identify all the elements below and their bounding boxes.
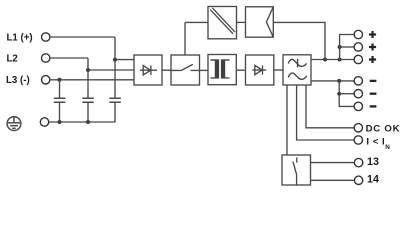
svg-text:DC OK: DC OK bbox=[366, 123, 401, 134]
terminal L1 bbox=[42, 33, 50, 41]
wire contact 13 bbox=[311, 162, 355, 164]
top sine with bar symbol bbox=[288, 59, 306, 66]
svg-text:14: 14 bbox=[367, 174, 379, 186]
label L1 (+) bbox=[7, 32, 33, 43]
svg-text:I < I: I < I bbox=[366, 137, 385, 148]
bottom sine symbol bbox=[288, 73, 307, 79]
terminal minus 1 bbox=[354, 77, 362, 85]
label DC OK bbox=[366, 123, 401, 134]
node L2 junction bbox=[86, 68, 90, 72]
capacitor C1 bbox=[54, 98, 66, 102]
diode box D2 bbox=[246, 55, 274, 85]
node minus bus top bbox=[337, 79, 341, 83]
terminal PE bbox=[40, 118, 48, 126]
plus sign 1 bbox=[369, 31, 376, 38]
label 14 bbox=[367, 174, 379, 186]
terminal plus 3 bbox=[354, 55, 362, 63]
wire relay coil bbox=[286, 85, 288, 155]
ground protective earth symbol bbox=[7, 117, 21, 131]
wire minus stub middle bbox=[339, 93, 354, 95]
minus sign 2 bbox=[370, 93, 377, 95]
wire L1 vertical bbox=[114, 37, 116, 98]
wire plus output bbox=[311, 59, 354, 61]
wire converter to buffer bbox=[237, 21, 246, 23]
label L2 bbox=[7, 53, 18, 64]
node minus bus middle bbox=[337, 92, 341, 96]
terminal DC OK bbox=[354, 124, 362, 132]
terminal L3 bbox=[42, 76, 50, 84]
terminal minus 2 bbox=[354, 90, 362, 98]
output stage box A3 bbox=[283, 55, 311, 85]
svg-text:L1 (+): L1 (+) bbox=[7, 32, 33, 43]
transformer winding symbol bbox=[210, 60, 229, 78]
double diagonal symbol bbox=[210, 8, 235, 34]
switch symbol bbox=[171, 64, 200, 70]
wire contact 14 bbox=[311, 179, 355, 181]
node bus C2 bbox=[86, 120, 90, 124]
label L3 (-) bbox=[6, 75, 30, 86]
label I < IN bbox=[366, 137, 390, 151]
chevron symbol bbox=[266, 7, 273, 37]
rectifier box U1 bbox=[134, 55, 162, 85]
capacitor C3 bbox=[109, 98, 121, 102]
converter box A1 (DC/DC) bbox=[208, 7, 237, 39]
wire rectifier to switch bbox=[162, 69, 171, 71]
node plus bus middle bbox=[338, 45, 342, 49]
node bus C1 bbox=[58, 120, 62, 124]
node plus bus lower bbox=[338, 58, 342, 62]
terminal I limit bbox=[354, 136, 362, 144]
svg-text:L2: L2 bbox=[7, 53, 18, 64]
wire C2 lower lead bbox=[87, 103, 89, 122]
wire buffer output bbox=[273, 22, 325, 59]
terminal minus 3 bbox=[354, 102, 362, 110]
wire L2 branch to rectifier bbox=[88, 69, 134, 71]
node L3 junction bbox=[58, 78, 62, 82]
wire DC OK bbox=[306, 85, 354, 128]
wire L2 horizontal bbox=[50, 57, 88, 59]
wire switch control up bbox=[184, 22, 186, 55]
relay box K1 bbox=[282, 155, 311, 185]
wire transformer to diode bbox=[236, 69, 245, 71]
transformer box T1 bbox=[208, 55, 236, 85]
diode D2 symbol bbox=[252, 69, 266, 71]
label 13 bbox=[367, 156, 379, 168]
buffer box A2 bbox=[246, 7, 274, 37]
terminal plus 1 bbox=[354, 30, 362, 38]
wire current limit bbox=[297, 85, 355, 140]
wire ground bus bbox=[49, 103, 115, 122]
wire L1 branch to rectifier bbox=[115, 59, 134, 61]
wire diode to output stage bbox=[274, 69, 283, 71]
node converter join bbox=[323, 58, 327, 62]
svg-text:N: N bbox=[385, 144, 390, 151]
terminal 13 bbox=[354, 158, 362, 166]
diode D1 symbol bbox=[140, 69, 157, 71]
svg-text:L3 (-): L3 (-) bbox=[6, 75, 30, 86]
wire L2 vertical bbox=[87, 58, 89, 98]
wire plus stub middle bbox=[340, 46, 355, 48]
plus sign 3 bbox=[369, 56, 376, 63]
terminal 14 bbox=[354, 176, 362, 184]
minus sign 3 bbox=[370, 105, 377, 107]
capacitor C2 bbox=[82, 98, 94, 102]
terminal plus 2 bbox=[354, 43, 362, 51]
relay contact symbol bbox=[293, 157, 297, 185]
wire minus output bbox=[311, 80, 354, 82]
wire plus bus bbox=[340, 35, 355, 60]
wire minus bus bbox=[339, 81, 354, 107]
wire switch to transformer bbox=[200, 69, 209, 71]
wire L1 horizontal bbox=[50, 36, 115, 38]
terminal L2 bbox=[42, 54, 50, 62]
switch box Q1 bbox=[171, 55, 200, 85]
plus sign 2 bbox=[369, 44, 376, 51]
node L1 junction bbox=[113, 58, 117, 62]
wire capacitor C1 tap bbox=[59, 80, 61, 98]
wire C1 lower lead bbox=[59, 103, 61, 122]
minus sign 1 bbox=[370, 80, 377, 82]
wire to DC/DC converter bbox=[185, 21, 208, 23]
svg-text:13: 13 bbox=[367, 156, 379, 168]
wire L3 to rectifier bbox=[50, 79, 134, 81]
